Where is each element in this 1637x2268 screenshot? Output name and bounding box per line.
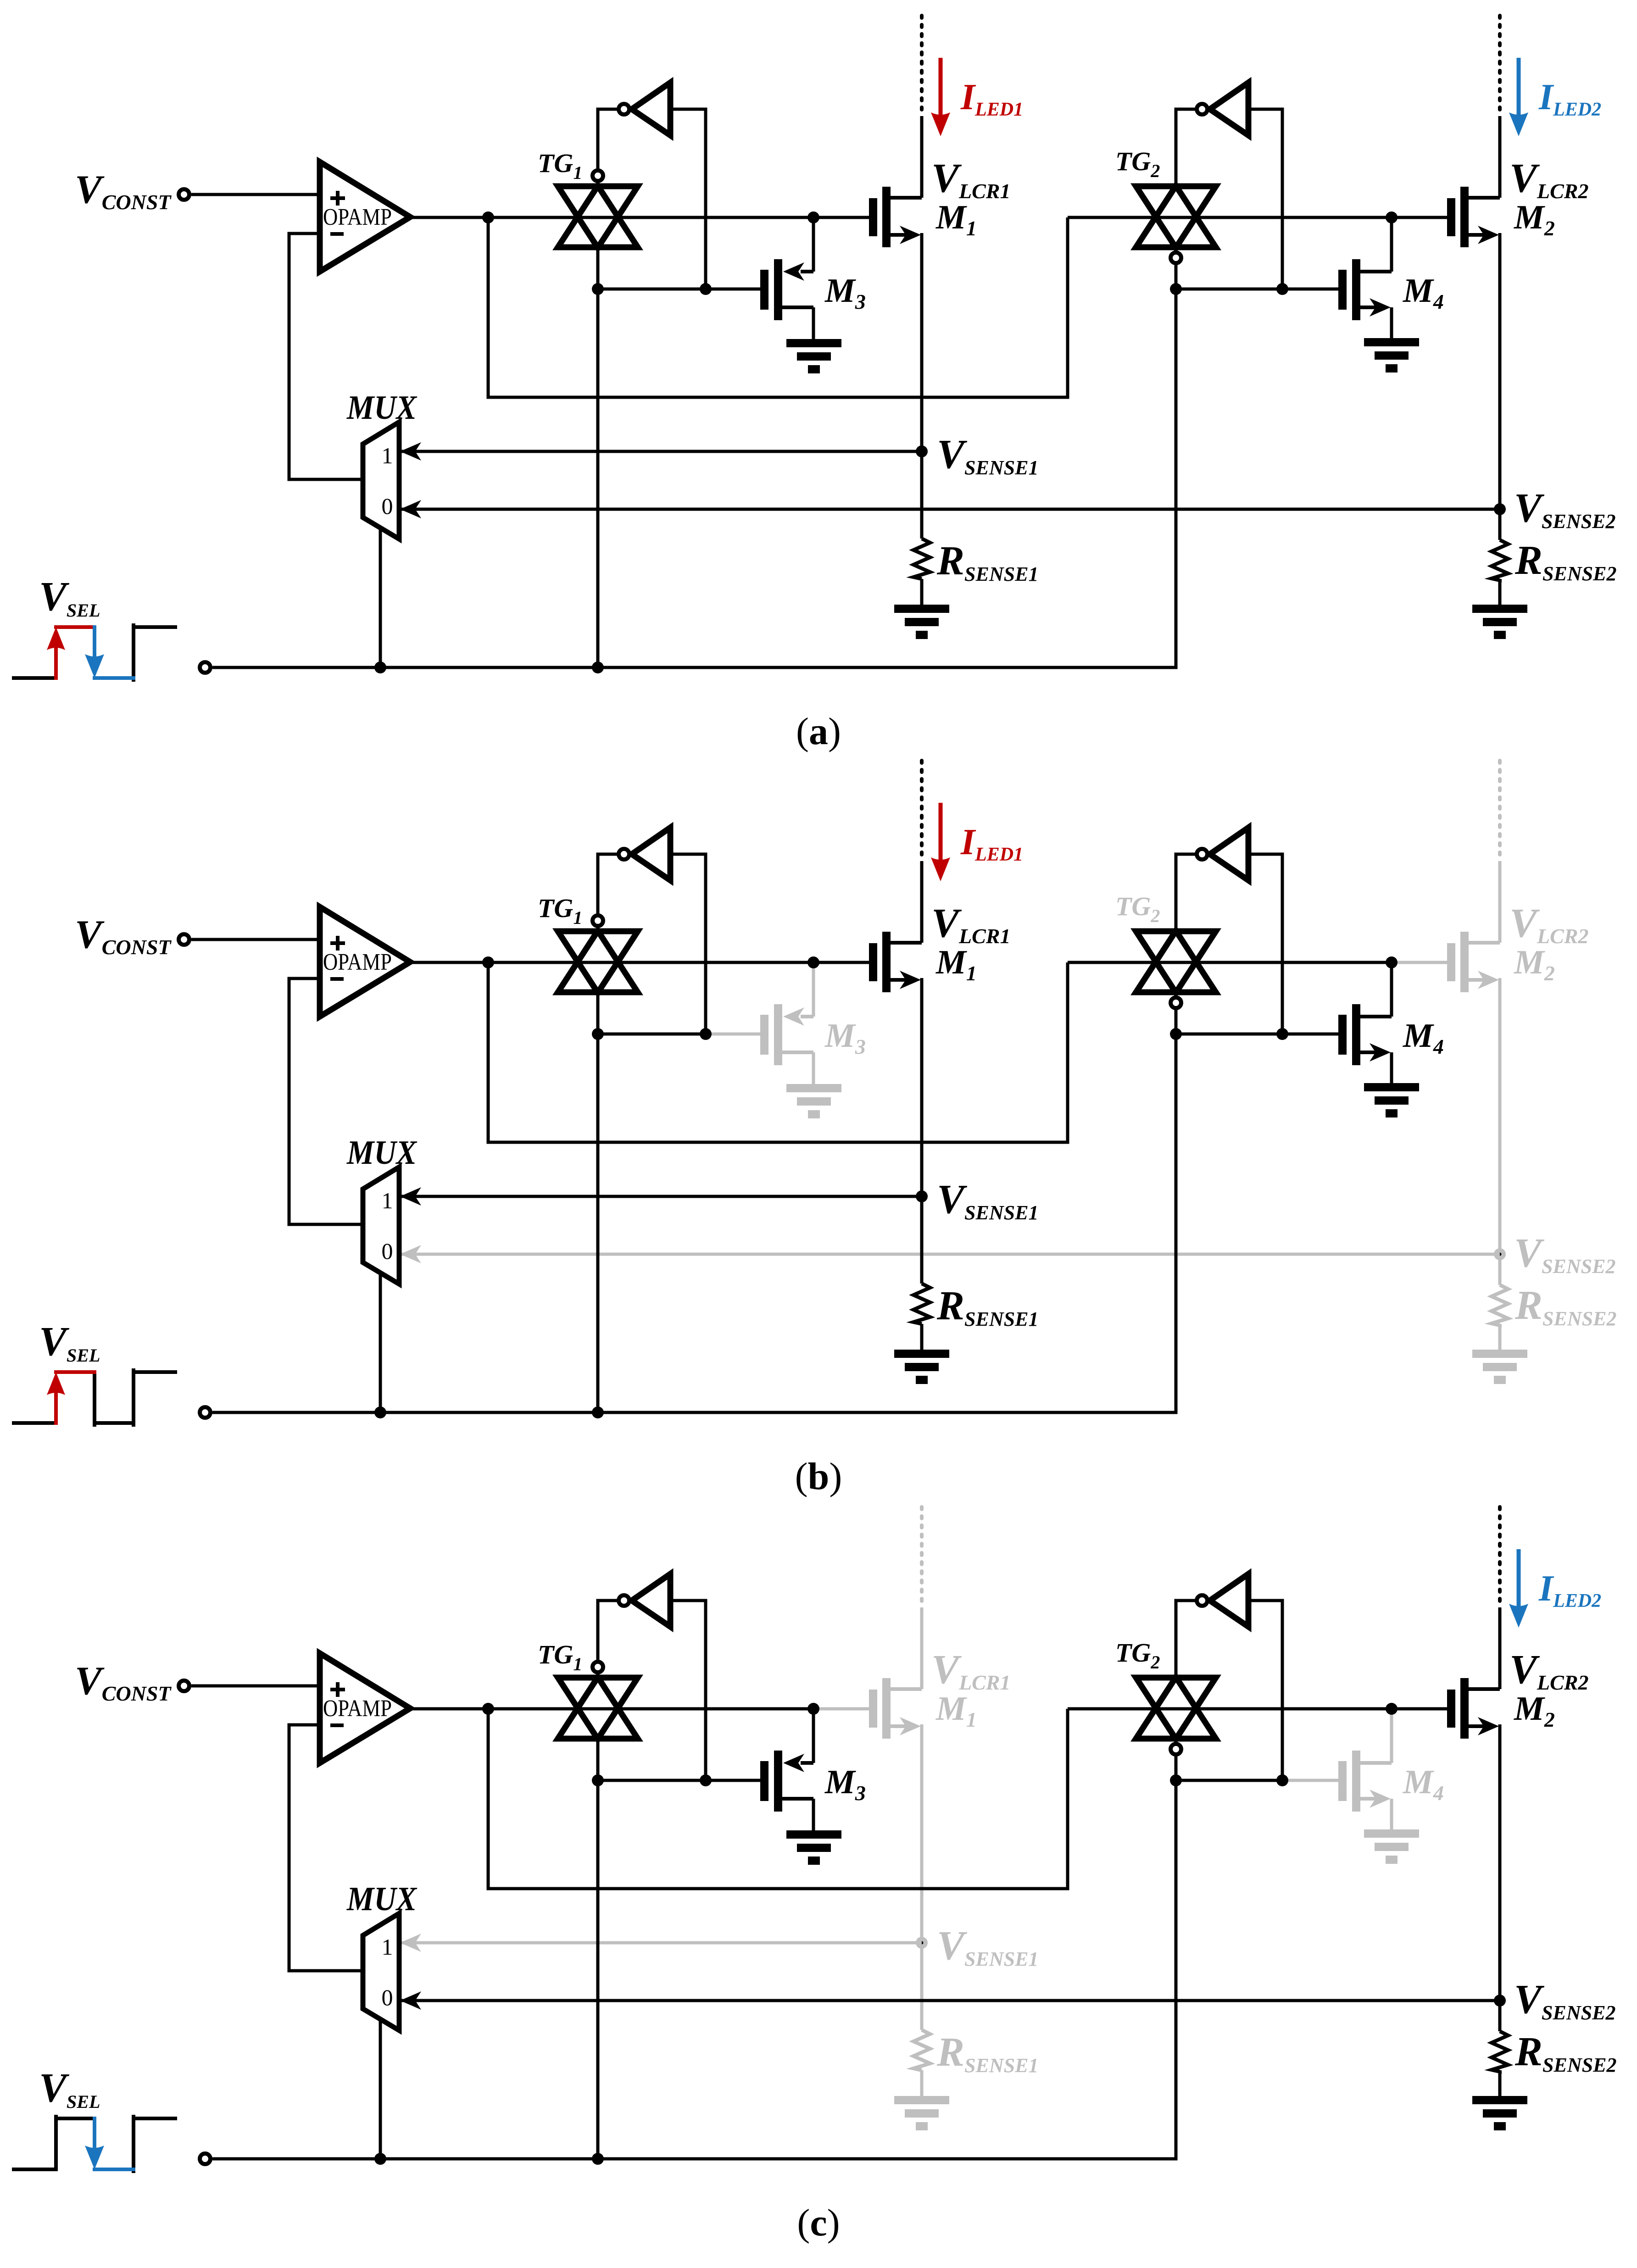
wire LED2 dashed supply [1498,761,1502,860]
wire M4 gate [1282,1779,1338,1782]
ground RSENSE1 [894,2096,949,2130]
label VLCR1 [931,901,1011,948]
label VSENSE2 [1514,1977,1615,2024]
node TG1 control rail junction [592,2153,604,2165]
wire inverter U4 input [1248,1601,1282,1780]
wire MUX select stem [379,2020,382,2159]
wire M4 gate [1282,1033,1338,1036]
wire VSENSE1 to MUX input 1 [399,1934,922,1952]
node control row 1 junction B [700,283,712,295]
wire TG2 top to inverter U4 output [1176,109,1197,186]
wire M2 source to VSENSE2 [1498,233,1502,540]
resistor RSENSE1 [913,2030,930,2070]
net VSEL rising edge 2 [132,1370,135,1425]
terminal VSEL rail [200,2154,211,2164]
caption (c) [797,2201,840,2244]
ground RSENSE2 [1472,2096,1527,2130]
ground M3 [786,1830,841,1865]
svg-text:0: 0 [382,1238,393,1264]
node control row 2 junction A [1170,283,1182,295]
ground RSENSE1 [894,1350,949,1384]
wire RSENSE1 to ground [920,1324,924,1350]
pin 0 (MUX input 0) [382,1984,393,2010]
wire TG1 control stem upper [596,248,600,289]
wire M3 gate [706,288,760,291]
wire RSENSE1 to ground [920,579,924,605]
label MUX [346,389,417,427]
wire M3 gate [706,1779,760,1782]
svg-text:OPAMP: OPAMP [323,1695,392,1722]
transistor M4 [1338,217,1392,338]
label VCONST [75,1659,172,1705]
wire M1 source to VSENSE1 [920,978,924,1284]
node G1 junction [807,1703,819,1715]
label OPAMP [323,949,392,975]
net VSEL falling edge [93,1372,96,1425]
wire M2 source to VSENSE2 [1498,1724,1502,2031]
wire VSEL rail [212,2157,1176,2161]
net VSEL waveform high segment 1 (red) [56,625,95,629]
node control row 1 junction B [700,1028,712,1040]
transmission gate TG1 [558,916,638,993]
svg-text:(b): (b) [795,1455,842,1498]
transistor M2 [1447,932,1500,992]
wire VCONST to op-amp [191,193,320,196]
svg-text:MUX: MUX [346,389,417,427]
transmission gate TG2 [1136,1677,1216,1755]
label VSENSE2 [1514,1230,1615,1278]
wire RSENSE2 to ground [1498,579,1502,605]
label VSENSE1 [937,1177,1038,1224]
label M1 [935,199,977,240]
node VSENSE1 [916,445,928,457]
label ILED1 [960,77,1023,120]
wire feedback mux to op-amp inverting input [289,233,363,479]
label RSENSE2 [1515,2029,1616,2076]
terminal VSEL rail [200,662,211,673]
mux U2 [363,1167,399,1284]
wire MUX select stem [379,1273,382,1412]
net VSEL waveform low segment 2 [95,1421,134,1425]
wire TG2 control stem to VSEL rail [1175,289,1178,667]
wire TG1 bubble to inverter U3 output [598,854,618,915]
net VSEL rising edge arrow (red) [47,1372,65,1423]
pin 0 (MUX input 0) [382,493,393,519]
wire LED1 supply to M1 drain [920,116,924,198]
wire inverter U3 input [670,854,706,1034]
wire LED2 dashed supply [1498,16,1502,115]
label M4 [1403,272,1444,313]
wire VCONST to op-amp [191,1684,320,1688]
wire LED2 supply to M2 drain [1498,861,1502,943]
net VSEL rising edge 2 [132,625,135,680]
wire M1 gate [813,216,869,219]
wire TG2 top to inverter U4 output [1176,854,1197,931]
ground M4 [1364,1083,1419,1117]
wire LED1 supply to M1 drain [920,861,924,943]
pin + (op-amp non-inverting input) [330,936,345,951]
node control row 2 junction B [1276,1028,1288,1040]
net VSEL waveform low segment 1 [14,2168,56,2171]
label M4 [1403,1017,1444,1058]
current arrow ILED2 (blue) [1509,58,1528,136]
transmission gate TG1 [558,1662,638,1740]
wire inverter U4 input [1248,854,1282,1034]
wire TG1 control stem upper [596,1739,600,1780]
inverter U3 [619,828,671,880]
label VLCR1 [931,156,1011,203]
label VSENSE2 [1514,485,1615,533]
wire VSENSE1 to MUX input 1 [399,1187,922,1206]
transmission gate TG2 [1136,931,1216,1008]
node VSENSE1 [916,1190,928,1202]
wire RSENSE2 to ground [1498,2070,1502,2096]
label VCONST [75,912,172,959]
inverter U4 [1197,1574,1249,1627]
panel (a) LED channel 1 and 2 both active [14,16,1616,753]
node control row 2 junction A [1170,1028,1182,1040]
ground M3 [786,1084,841,1118]
svg-text:0: 0 [382,493,393,519]
node control row 2 junction A [1170,1774,1182,1786]
node control row 2 junction B [1276,283,1288,295]
wire TG2 bubble to control row 2 [1175,263,1178,289]
terminal VCONST [179,189,189,200]
wire LED1 dashed supply [920,16,924,115]
resistor RSENSE2 [1492,1285,1508,1325]
wire VSENSE1 to MUX input 1 [399,442,922,461]
ground RSENSE2 [1472,1350,1527,1384]
wire M1 source to VSENSE1 [920,1724,924,2030]
transistor M2 [1447,187,1500,247]
transistor M4 [1338,962,1392,1083]
inverter U4 [1197,828,1249,880]
label VCONST [75,167,172,214]
wire M2 gate [1392,216,1447,219]
wire M4 gate [1282,288,1338,291]
label MUX [346,1880,417,1918]
transistor M1 [869,1678,922,1739]
wire M1 gate [813,1707,869,1711]
label TG1 [538,1640,582,1674]
panel (c) LED channel 2 active [14,1507,1616,2244]
terminal VSEL rail [200,1407,211,1418]
net VSEL waveform low segment 2 (blue) [95,2168,134,2171]
wire op-amp output to TG2 (bypass) [488,217,1068,397]
wire TG1 control stem upper [596,993,600,1034]
wire control row 1 [598,288,706,291]
wire M1 source to VSENSE1 [920,233,924,539]
pin + (op-amp non-inverting input) [330,191,345,206]
mux U2 [363,1913,399,2030]
svg-text:(c): (c) [797,2201,840,2244]
label M2 [1514,1690,1555,1731]
node MUX select junction [374,1406,386,1418]
resistor RSENSE1 [913,539,930,579]
net VSEL waveform high segment 2 [134,625,175,629]
wire TG1 bubble to inverter U3 output [598,1601,618,1662]
wire TG1 control stem to VSEL rail [596,289,600,667]
pin - (op-amp inverting input) [330,977,344,981]
label M4 [1403,1763,1444,1805]
label ILED2 [1538,77,1601,120]
node G2 junction [1386,211,1398,223]
net VSEL rising edge arrow (red) [47,627,65,678]
node G2 junction [1386,956,1398,968]
label ILED2 [1538,1568,1601,1612]
pin + (op-amp non-inverting input) [330,1682,345,1697]
label M1 [935,1690,977,1731]
svg-text:1: 1 [382,443,393,468]
ground RSENSE1 [894,605,949,639]
wire VSENSE2 to MUX input 0 [399,500,1500,518]
label MUX [346,1134,417,1172]
node VSENSE2 [1494,503,1506,515]
transistor M3 [760,962,813,1084]
node VSENSE2 [1494,1248,1506,1260]
node VSENSE2 [1494,1995,1506,2007]
wire op-amp output to TG2 (bypass) [488,1709,1068,1889]
wire inverter U4 input [1248,109,1282,289]
transmission gate TG1 [558,171,638,248]
wire op-amp output to TG2 (bypass) [488,962,1068,1142]
label TG1 [538,893,582,928]
node TG1 control rail junction [592,1406,604,1418]
op-amp U1 [320,1653,410,1763]
node control row 1 junction A [592,283,604,295]
net VSEL falling edge arrow (blue) [85,627,104,678]
resistor RSENSE2 [1492,540,1508,580]
net VSEL waveform high segment 2 [134,2117,175,2120]
label ILED1 [960,822,1023,865]
label VSENSE1 [937,432,1038,479]
wire op-amp output to node G1 [410,216,813,219]
wire VSENSE2 to MUX input 0 [399,1245,1500,1263]
inverter U3 [619,1574,671,1627]
wire TG2 input segment [1068,1707,1392,1711]
wire M2 gate [1392,1707,1447,1711]
wire LED2 supply to M2 drain [1498,1607,1502,1689]
label RSENSE2 [1515,1283,1616,1330]
caption (b) [795,1455,842,1498]
node TG1 control rail junction [592,661,604,673]
svg-text:OPAMP: OPAMP [323,204,392,230]
transmission gate TG2 [1136,186,1216,263]
label TG1 [538,148,582,183]
wire inverter U3 input [670,109,706,289]
wire control row 2 [1176,1779,1282,1782]
wire LED1 dashed supply [920,761,924,860]
net VSEL rising edge 1 [54,2117,58,2169]
pin 0 (MUX input 0) [382,1238,393,1264]
svg-text:1: 1 [382,1934,393,1960]
label VSEL [39,2065,100,2112]
node op-amp output junction [482,1703,494,1715]
wire M2 gate [1392,961,1447,964]
pin 1 (MUX input 1) [382,1188,393,1213]
op-amp U1 [320,162,410,272]
svg-text:0: 0 [382,1984,393,2010]
node VSENSE1 [916,1937,928,1949]
label VLCR2 [1509,1647,1589,1694]
ground M4 [1364,338,1419,372]
net VSEL rising edge 2 [132,2117,135,2171]
net VSEL waveform high segment 2 [134,1370,175,1374]
transistor M3 [760,217,813,339]
label VSEL [39,574,100,621]
node control row 2 junction B [1276,1774,1288,1786]
transistor M3 [760,1709,813,1830]
ground RSENSE2 [1472,605,1527,639]
label VLCR1 [931,1647,1011,1694]
label RSENSE1 [936,2029,1038,2077]
transistor M4 [1338,1709,1392,1829]
wire TG2 input segment [1068,216,1392,219]
wire RSENSE1 to ground [920,2070,924,2096]
node control row 1 junction A [592,1774,604,1786]
net VSEL waveform high segment 1 [56,2117,95,2120]
label OPAMP [323,204,392,230]
current arrow ILED1 (red) [931,58,950,136]
label M2 [1514,944,1555,985]
wire TG2 bubble to control row 2 [1175,1755,1178,1780]
current arrow ILED2 (blue) [1509,1549,1528,1628]
resistor RSENSE2 [1492,2031,1508,2072]
svg-text:MUX: MUX [346,1880,417,1918]
net VSEL waveform low segment 1 [14,676,56,680]
node op-amp output junction [482,211,494,223]
wire VSENSE2 to MUX input 0 [399,1991,1500,2010]
svg-text:1: 1 [382,1188,393,1213]
node op-amp output junction [482,956,494,968]
wire LED1 supply to M1 drain [920,1607,924,1689]
inverter U4 [1197,83,1249,135]
label M3 [824,272,866,313]
label TG2 [1115,891,1160,926]
label OPAMP [323,1695,392,1722]
label RSENSE2 [1515,538,1616,585]
wire TG2 input segment [1068,961,1392,964]
wire feedback mux to op-amp inverting input [289,978,363,1224]
wire TG1 bubble to inverter U3 output [598,109,618,170]
pin 1 (MUX input 1) [382,1934,393,1960]
wire M1 gate [813,961,869,964]
transistor M2 [1447,1678,1500,1739]
wire TG2 bubble to control row 2 [1175,1008,1178,1034]
node control row 1 junction B [700,1774,712,1786]
pin 1 (MUX input 1) [382,443,393,468]
ground M3 [786,339,841,373]
node control row 1 junction A [592,1028,604,1040]
wire VCONST to op-amp [191,938,320,941]
wire LED2 dashed supply [1498,1507,1502,1606]
net VSEL waveform low segment 1 [14,1421,56,1425]
resistor RSENSE1 [913,1284,930,1324]
label M2 [1514,199,1555,240]
wire VSEL rail [212,666,1176,669]
pin - (op-amp inverting input) [330,232,344,236]
wire TG2 control stem to VSEL rail [1175,1034,1178,1412]
transistor M1 [869,187,922,247]
wire TG2 control stem to VSEL rail [1175,1780,1178,2159]
label M3 [824,1763,866,1805]
node G1 junction [807,956,819,968]
node MUX select junction [374,2153,386,2165]
label M1 [935,944,977,985]
wire LED2 supply to M2 drain [1498,116,1502,198]
svg-text:MUX: MUX [346,1134,417,1172]
wire op-amp output to node G1 [410,961,813,964]
net VSEL waveform low segment 2 (blue) [95,676,134,680]
net VSEL falling edge arrow (blue) [85,2118,104,2169]
wire VSEL rail [212,1411,1176,1414]
inverter U3 [619,83,671,135]
node MUX select junction [374,661,386,673]
label RSENSE1 [936,1283,1038,1330]
wire TG1 control stem to VSEL rail [596,1780,600,2159]
terminal VCONST [179,1681,189,1691]
wire RSENSE2 to ground [1498,1324,1502,1350]
wire control row 2 [1176,288,1282,291]
label RSENSE1 [936,538,1038,585]
wire M3 gate [706,1033,760,1036]
op-amp U1 [320,907,410,1017]
label VLCR2 [1509,156,1589,203]
current arrow ILED1 (red) [931,803,950,881]
wire feedback mux to op-amp inverting input [289,1725,363,1971]
label M3 [824,1017,866,1058]
wire op-amp output to node G1 [410,1707,813,1711]
node G1 junction [807,211,819,223]
svg-text:OPAMP: OPAMP [323,949,392,975]
label VSEL [39,1319,100,1366]
label TG2 [1115,146,1160,181]
label VLCR2 [1509,901,1589,948]
mux U2 [363,422,399,539]
transistor M1 [869,932,922,992]
label VSENSE1 [937,1923,1038,1970]
pin - (op-amp inverting input) [330,1723,344,1727]
wire MUX select stem [379,528,382,667]
ground M4 [1364,1829,1419,1864]
svg-text:(a): (a) [796,710,841,753]
wire control row 1 [598,1779,706,1782]
net VSEL waveform high segment 1 (red) [56,1370,95,1374]
wire M2 source to VSENSE2 [1498,978,1502,1285]
caption (a) [796,710,841,753]
wire TG2 top to inverter U4 output [1176,1601,1197,1677]
terminal VCONST [179,934,189,945]
node G2 junction [1386,1703,1398,1715]
wire control row 2 [1176,1033,1282,1036]
label TG2 [1115,1638,1160,1673]
wire LED1 dashed supply [920,1507,924,1606]
wire inverter U3 input [670,1601,706,1780]
wire control row 1 [598,1033,706,1036]
panel (b) LED channel 1 active [14,761,1616,1498]
wire TG1 control stem to VSEL rail [596,1034,600,1412]
